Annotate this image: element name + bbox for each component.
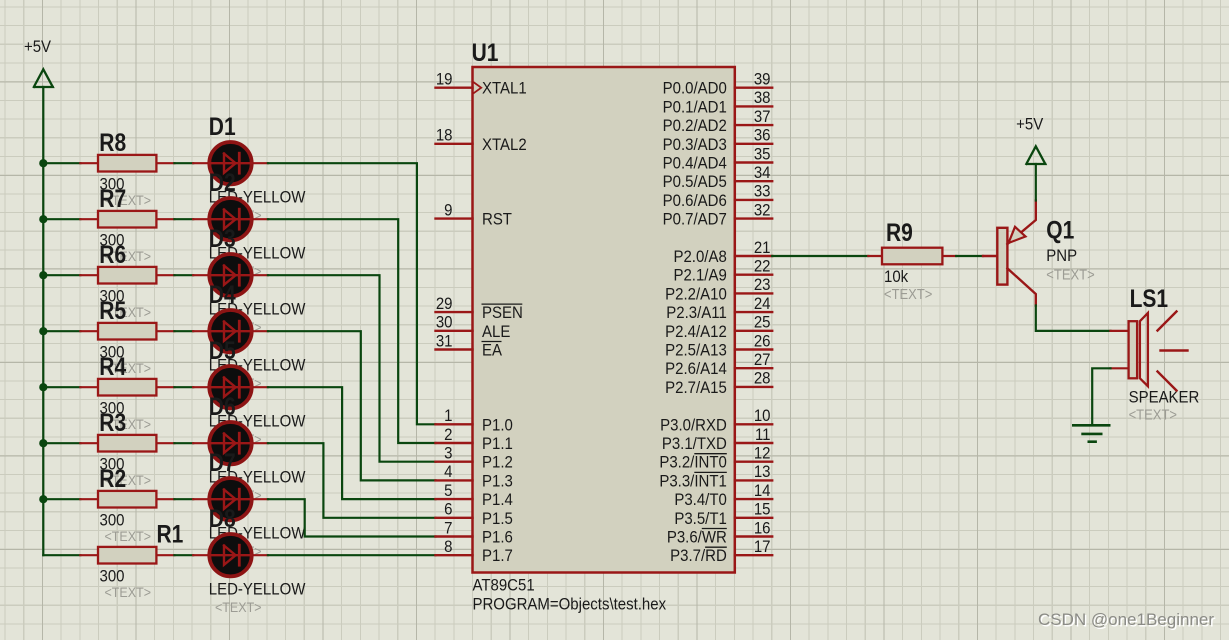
svg-text:17: 17 [754,538,771,556]
svg-text:PSEN: PSEN [482,304,523,322]
svg-text:R4: R4 [99,353,126,381]
svg-text:P1.6: P1.6 [482,529,513,547]
pin 30 ALE [436,314,511,341]
wire rail to R7 [43,218,80,220]
svg-text:6: 6 [444,501,452,519]
pin 23 P2.2/A10 [665,276,772,303]
pin 7 P1.6 [436,520,513,547]
resistor R2 300 [80,465,174,530]
svg-text:R7: R7 [99,185,126,213]
svg-text:13: 13 [754,463,771,481]
wire D5 to U1 pin 5 [268,387,436,499]
wire R9 to Q1 base [956,255,983,257]
ground [1073,425,1109,441]
svg-text:11: 11 [755,426,771,444]
svg-text:P2.3/A11: P2.3/A11 [666,304,727,322]
svg-text:39: 39 [754,71,771,89]
svg-text:D7: D7 [209,448,236,476]
resistor R5 300 [80,297,174,362]
pin 26 P2.5/A13 [665,333,772,360]
pin 15 P3.5/T1 [674,501,772,528]
svg-text:1: 1 [444,407,452,425]
wire D1 to U1 pin 1 [268,163,436,424]
LED D5 [193,336,268,408]
svg-text:5: 5 [444,482,452,500]
svg-text:24: 24 [754,295,771,313]
wire rail to R3 [43,442,80,444]
wire LS1 to ground [1092,368,1110,424]
pin 3 P1.2 [436,445,513,472]
pin 36 P0.3/AD3 [663,127,773,154]
svg-text:15: 15 [754,501,771,519]
pin 13 P3.3/INT1 [659,463,772,490]
svg-text:P1.2: P1.2 [482,454,513,472]
svg-text:2: 2 [444,426,452,444]
svg-text:7: 7 [444,520,452,538]
junction node row 4 [39,327,47,335]
svg-text:P0.3/AD3: P0.3/AD3 [663,136,727,154]
pin 6 P1.5 [436,501,513,528]
svg-text:P0.1/AD1: P0.1/AD1 [663,99,727,117]
LED D8 [193,504,268,576]
LED D1 [193,112,268,184]
svg-text:29: 29 [436,295,453,313]
svg-text:P1.3: P1.3 [482,473,513,491]
resistor R6 300 [80,241,174,306]
svg-text:<TEXT>: <TEXT> [105,585,152,601]
sound wave lines of LS1 [1158,312,1188,391]
power +5V right [1016,116,1045,164]
pin 39 P0.0/AD0 [663,71,773,98]
svg-text:P0.2/AD2: P0.2/AD2 [663,117,727,135]
svg-text:P2.7/A15: P2.7/A15 [665,379,727,397]
svg-text:P1.4: P1.4 [482,491,513,509]
svg-text:27: 27 [754,351,771,369]
pin 16 P3.6/WR [667,520,772,547]
resistor R4 300 [80,353,174,418]
pin 34 P0.5/AD5 [663,164,773,191]
wire rail to R5 [43,330,80,332]
svg-text:EA: EA [482,342,502,360]
pin 5 P1.4 [436,482,513,509]
pin 21 P2.0/A8 [673,239,772,266]
svg-text:38: 38 [754,89,771,107]
pin 38 P0.1/AD1 [663,89,773,116]
svg-text:SPEAKER: SPEAKER [1129,389,1200,407]
wire R8 to D1 [174,162,193,164]
svg-text:8: 8 [444,538,452,556]
svg-text:P2.6/A14: P2.6/A14 [665,360,727,378]
resistor R8 300 [80,129,174,194]
junction node row 5 [39,383,47,391]
wire U1 pin 21 to R9 [772,255,868,257]
wire rail to R4 [43,386,80,388]
svg-text:P0.0/AD0: P0.0/AD0 [663,80,727,98]
junction node row 3 [39,271,47,279]
junction node row 7 [39,495,47,503]
pin 27 P2.6/A14 [665,351,772,378]
svg-text:P3.0/RXD: P3.0/RXD [660,417,727,435]
pin 8 P1.7 [436,538,513,565]
pin 33 P0.6/AD6 [663,183,773,210]
svg-text:3: 3 [444,445,452,463]
wire D3 to U1 pin 3 [268,275,436,462]
svg-text:R1: R1 [157,520,184,548]
svg-text:<TEXT>: <TEXT> [215,600,262,616]
wire R3 to D6 [174,442,193,444]
wire D6 to U1 pin 6 [268,443,436,518]
wire R6 to D3 [174,274,193,276]
svg-text:30: 30 [436,314,453,332]
svg-text:D2: D2 [209,168,236,196]
svg-text:300: 300 [100,568,125,586]
svg-text:10k: 10k [884,268,908,286]
pin 17 P3.7/RD [670,538,772,565]
pin 9 RST [436,202,513,229]
svg-text:33: 33 [754,183,771,201]
svg-text:300: 300 [100,512,125,530]
resistor R7 300 [80,185,174,250]
wire rail to R1 [43,554,80,556]
pin 37 P0.2/AD2 [663,108,773,135]
svg-text:19: 19 [436,71,453,89]
pin 31 EA [436,333,503,360]
pin 35 P0.4/AD4 [663,146,773,173]
svg-text:XTAL2: XTAL2 [482,136,527,154]
pin 25 P2.4/A12 [665,314,772,341]
svg-text:10: 10 [754,407,771,425]
svg-text:31: 31 [436,333,453,351]
svg-text:P2.1/A9: P2.1/A9 [673,267,726,285]
svg-text:<TEXT>: <TEXT> [1046,267,1094,283]
pin 28 P2.7/A15 [665,370,772,397]
svg-text:23: 23 [754,276,771,294]
pin 12 P3.2/INT0 [659,445,772,472]
wire +5V rail vertical [42,87,44,555]
pin 32 P0.7/AD7 [663,202,773,229]
wire Q1 collector to LS1 [1036,306,1111,331]
svg-text:P3.2/INT0: P3.2/INT0 [659,454,727,472]
wire D7 to U1 pin 7 [268,499,436,536]
svg-text:D5: D5 [209,336,236,364]
pin 14 P3.4/T0 [674,482,772,509]
pin 18 XTAL2 [436,127,527,154]
svg-text:U1: U1 [472,39,499,67]
pin 11 P3.1/TXD [662,426,772,453]
power +5V left [24,38,53,87]
svg-text:34: 34 [754,164,771,182]
LED D3 [193,224,268,296]
svg-text:D4: D4 [209,280,236,308]
svg-text:P2.4/A12: P2.4/A12 [665,323,727,341]
wire R7 to D2 [174,218,193,220]
wire R4 to D5 [174,386,193,388]
pin 19 XTAL1 [436,71,527,98]
svg-text:P3.4/T0: P3.4/T0 [674,491,727,509]
svg-text:PNP: PNP [1046,247,1077,265]
svg-text:P3.1/TXD: P3.1/TXD [662,435,727,453]
LED D7 [193,448,268,520]
svg-text:28: 28 [754,370,771,388]
svg-text:P2.0/A8: P2.0/A8 [673,248,726,266]
svg-text:Q1: Q1 [1046,216,1074,244]
pin 2 P1.1 [436,426,513,453]
svg-text:AT89C51: AT89C51 [473,577,535,595]
svg-text:<TEXT>: <TEXT> [105,529,152,545]
wire R2 to D7 [174,498,193,500]
watermark CSDN @one1Beginner [1038,610,1214,630]
wire D8 to U1 pin 8 [268,554,436,556]
svg-text:<TEXT>: <TEXT> [1129,407,1177,423]
svg-text:D6: D6 [209,392,236,420]
svg-text:XTAL1: XTAL1 [482,80,527,98]
svg-text:P1.0: P1.0 [482,417,513,435]
resistor R3 300 [80,409,174,474]
svg-text:+5V: +5V [1016,116,1043,134]
svg-text:37: 37 [754,108,771,126]
svg-text:P3.5/T1: P3.5/T1 [674,510,727,528]
svg-text:P0.4/AD4: P0.4/AD4 [663,155,727,173]
svg-text:P0.6/AD6: P0.6/AD6 [663,192,727,210]
svg-text:D8: D8 [209,504,236,532]
svg-text:R9: R9 [886,219,913,247]
svg-text:P3.7/RD: P3.7/RD [670,547,727,565]
resistor R1 300 [80,520,183,586]
svg-text:R8: R8 [99,129,126,157]
svg-text:D1: D1 [209,112,236,140]
svg-text:22: 22 [754,258,771,276]
wire R1 to D8 [174,554,193,556]
svg-text:P1.5: P1.5 [482,510,513,528]
wire +5V to Q1 emitter [1035,164,1037,201]
svg-text:ALE: ALE [482,323,510,341]
junction node row 2 [39,215,47,223]
svg-text:P2.2/A10: P2.2/A10 [665,286,727,304]
svg-text:P3.3/INT1: P3.3/INT1 [659,473,727,491]
svg-text:<TEXT>: <TEXT> [884,286,932,302]
pin 10 P3.0/RXD [660,407,772,434]
svg-text:+5V: +5V [24,38,51,56]
svg-text:P1.7: P1.7 [482,547,513,565]
pin 22 P2.1/A9 [673,258,772,285]
speaker LS1 [1111,285,1200,407]
wire rail to R8 [43,162,80,164]
svg-text:LS1: LS1 [1130,285,1169,313]
pin 29 PSEN [436,295,523,322]
transistor Q1 PNP [983,201,1077,306]
svg-text:36: 36 [754,127,771,145]
pin 24 P2.3/A11 [666,295,772,322]
resistor R9 10k [868,219,956,287]
wire D2 to U1 pin 2 [268,219,436,443]
svg-text:RST: RST [482,211,512,229]
svg-text:R6: R6 [99,241,126,269]
pin 1 P1.0 [436,407,513,434]
svg-text:R3: R3 [99,409,126,437]
svg-text:26: 26 [754,333,771,351]
svg-text:P2.5/A13: P2.5/A13 [665,342,727,360]
svg-text:32: 32 [754,202,771,220]
svg-text:R5: R5 [99,297,126,325]
wire rail to R2 [43,498,80,500]
svg-text:P0.7/AD7: P0.7/AD7 [663,211,727,229]
svg-text:25: 25 [754,314,771,332]
svg-text:P3.6/WR: P3.6/WR [667,529,727,547]
junction node row 6 [39,439,47,447]
svg-text:18: 18 [436,127,453,145]
LED D4 [193,280,268,352]
svg-text:16: 16 [754,520,771,538]
svg-text:P0.5/AD5: P0.5/AD5 [663,173,727,191]
svg-text:14: 14 [754,482,771,500]
svg-text:D3: D3 [209,224,236,252]
svg-text:12: 12 [754,445,771,463]
LED D6 [193,392,268,464]
LED D2 [193,168,268,240]
svg-text:21: 21 [754,239,771,257]
svg-text:9: 9 [444,202,452,220]
svg-text:PROGRAM=Objects\test.hex: PROGRAM=Objects\test.hex [473,596,667,614]
wire D4 to U1 pin 4 [268,331,436,480]
svg-text:P1.1: P1.1 [482,435,513,453]
svg-text:R2: R2 [99,465,126,493]
junction node row 1 [39,159,47,167]
wire R5 to D4 [174,330,193,332]
IC U1 AT89C51 body [473,67,735,573]
wire rail to R6 [43,274,80,276]
pin 4 P1.3 [436,463,513,490]
svg-text:35: 35 [754,146,771,164]
svg-text:LED-YELLOW: LED-YELLOW [209,581,306,599]
svg-text:4: 4 [444,463,452,481]
